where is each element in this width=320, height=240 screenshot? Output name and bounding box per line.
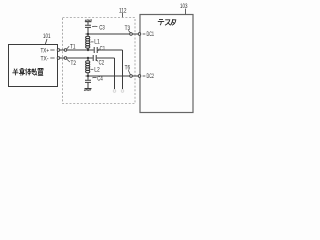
svg-text:T6: T6 [125, 66, 131, 72]
semiconductor device box 101 [9, 45, 58, 87]
wire TX+ to T1 [60, 49, 64, 51]
junction on TX- rail at L2 [87, 57, 89, 59]
label L2 with leader [91, 67, 101, 73]
テ [158, 20, 164, 26]
label DC1 [143, 31, 155, 38]
TX+ output terminal on device box [57, 49, 60, 52]
TX- output terminal on device box [57, 57, 60, 60]
wire node B to T6 [86, 75, 130, 77]
inductor L2 [86, 58, 90, 76]
svg-text:TX-: TX- [41, 55, 49, 62]
svg-text:T3: T3 [125, 26, 131, 32]
wire TX- to T2 [60, 57, 64, 59]
体 [25, 68, 31, 75]
capacitor C2 [93, 55, 96, 61]
junction on TX+ rail at L1 [87, 49, 89, 51]
wire T6 to DC2 [133, 75, 139, 77]
terminal T6 [130, 75, 133, 78]
svg-text:L2: L2 [94, 67, 100, 73]
label 112 with leader [119, 8, 127, 18]
wire C1 to corner [98, 49, 123, 51]
wire T3 to DC1 [133, 33, 139, 35]
導 [19, 68, 25, 75]
terminal T3 [130, 33, 133, 36]
svg-text:DC1: DC1 [147, 31, 155, 38]
wire corner down to stub T5 [114, 58, 116, 89]
label T3 with leader [125, 26, 131, 33]
wire ground to C3 [87, 22, 89, 25]
wire corner down to stub T4 [122, 50, 124, 89]
matching circuit dashed box 112 [63, 18, 136, 104]
net label TX- [41, 55, 55, 62]
svg-text:T2: T2 [71, 61, 77, 67]
label C3 with leader [92, 25, 105, 31]
terminal T5 (faint) [113, 90, 116, 93]
置 [38, 68, 43, 75]
label 103 with leader [180, 3, 188, 14]
junction node B (L2/C4/T6) [87, 75, 89, 77]
svg-text:C1: C1 [100, 46, 106, 52]
ス [165, 20, 170, 26]
svg-text:101: 101 [43, 33, 51, 40]
svg-text:TX+: TX+ [41, 47, 50, 54]
terminal T4 (faint) [121, 90, 124, 93]
svg-text:DC2: DC2 [147, 73, 155, 80]
terminal DC2 on tester box [138, 75, 141, 78]
label T2 with leader [67, 59, 77, 67]
ground (bottom) [84, 89, 91, 91]
label C1 with leader [98, 46, 106, 52]
svg-text:L1: L1 [94, 40, 100, 46]
半 [12, 69, 18, 76]
label L1 with leader [91, 40, 101, 46]
svg-text:C3: C3 [99, 25, 105, 31]
label 101 with leader [43, 33, 51, 44]
wire node B to C4 [87, 76, 89, 80]
terminal DC1 on tester box [138, 33, 141, 36]
ground (top) [85, 19, 92, 21]
wire C4 to ground [87, 82, 89, 88]
wire T2 to C2 (TX- rail) [67, 57, 93, 59]
タ [171, 19, 176, 25]
terminal T1 [64, 49, 67, 52]
tester box 103 [140, 15, 193, 113]
inductor L1 [86, 34, 90, 50]
label C4 with leader [92, 77, 103, 83]
label C2 with leader [96, 59, 105, 66]
capacitor C4 [85, 80, 91, 82]
wire node A to T3 [86, 33, 130, 35]
label テスタ [158, 19, 176, 25]
svg-text:103: 103 [180, 3, 188, 10]
label 半導体装置 [12, 68, 43, 75]
svg-text:C2: C2 [99, 61, 105, 67]
net label TX+ [41, 47, 55, 54]
wire C2 to corner [97, 57, 115, 59]
wire C3 to node A [87, 27, 89, 34]
装 [31, 68, 37, 75]
capacitor C3 [85, 25, 91, 27]
svg-text:C4: C4 [97, 77, 103, 83]
label T6 with leader [125, 66, 131, 75]
wire T1 to C1 (TX+ rail) [67, 49, 94, 51]
junction node A (C3/L1/T3) [87, 33, 89, 35]
label DC2 [143, 73, 155, 80]
terminal T2 [64, 57, 67, 60]
capacitor C1 [94, 47, 97, 53]
label T1 with leader [67, 44, 76, 50]
